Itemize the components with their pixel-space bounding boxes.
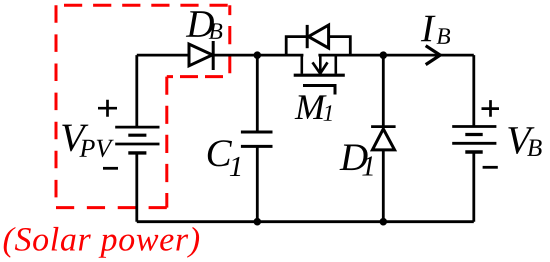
diode DB — [189, 41, 213, 70]
node junction bottom left — [253, 218, 261, 226]
label solar power — [4, 227, 199, 258]
label C1 — [208, 140, 240, 176]
wire top main horizontal left (drain side) — [137, 54, 304, 57]
diode D1 — [371, 127, 396, 150]
wire VPV bottom vertical — [135, 153, 138, 222]
node junction top left — [253, 51, 261, 59]
label D1 — [340, 145, 373, 176]
label M1 with overline — [295, 86, 335, 121]
label IB — [421, 16, 450, 44]
label VB — [508, 127, 541, 156]
label DB — [186, 11, 222, 39]
wire VB top vertical — [472, 55, 475, 126]
node junction top right — [380, 51, 388, 59]
body diode of M1 — [286, 25, 350, 55]
wire D1 top vertical — [382, 55, 385, 127]
node junction bottom right — [380, 218, 388, 226]
wire top main horizontal right (source side) — [318, 54, 473, 57]
mosfet M1 — [294, 54, 345, 75]
plus sign VB — [482, 100, 500, 117]
plus sign VPV — [98, 100, 117, 117]
solar power dashed boundary — [56, 5, 230, 207]
minus sign VPV — [103, 167, 118, 170]
wire D1 bottom vertical — [382, 150, 385, 222]
wire bottom bus — [137, 220, 474, 223]
wire C1 bottom vertical — [256, 146, 259, 221]
battery VPV — [115, 127, 159, 153]
current arrow IB — [426, 46, 441, 65]
wire C1 top vertical — [256, 55, 259, 132]
label VPV — [62, 125, 114, 158]
wire VPV top vertical — [135, 55, 138, 127]
minus sign VB — [483, 166, 498, 169]
battery VB — [452, 127, 496, 153]
wire VB bottom vertical — [472, 152, 475, 222]
capacitor C1 — [241, 132, 273, 146]
